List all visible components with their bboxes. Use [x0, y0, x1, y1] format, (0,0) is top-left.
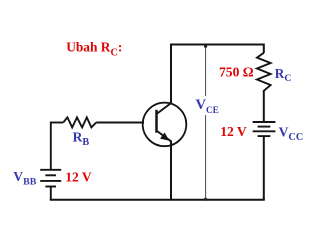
wire top rail [170, 44, 264, 46]
wire left vertical lower [50, 187, 52, 201]
battery VBB [40, 170, 61, 187]
wire VCE measurement line [205, 45, 207, 96]
svg-text:Ubah RC:: Ubah RC: [66, 40, 122, 59]
resistor RB [63, 117, 96, 127]
svg-text:VBB: VBB [13, 169, 36, 187]
wire right vertical bottom [263, 136, 265, 200]
svg-text:RB: RB [73, 130, 90, 149]
wire base horizontal left [51, 122, 63, 124]
node VCE top junction [204, 45, 207, 48]
svg-text:RC: RC [275, 66, 292, 84]
svg-text:750 Ω: 750 Ω [219, 64, 254, 79]
battery VCC [253, 122, 276, 136]
wire bottom rail [50, 199, 265, 201]
svg-text:12 V: 12 V [220, 124, 247, 139]
svg-text:12 V: 12 V [65, 170, 92, 185]
node VCE bottom junction [204, 198, 207, 201]
wire left vertical upper [50, 122, 52, 170]
resistor RC [257, 53, 271, 91]
wire right vertical middle [263, 90, 265, 122]
transistor Q1 [143, 103, 187, 147]
svg-text:VCE: VCE [196, 97, 219, 115]
wire base horizontal right [96, 122, 144, 124]
wire collector vertical [170, 45, 172, 104]
wire emitter vertical [170, 141, 172, 201]
wire right vertical top [263, 44, 265, 54]
svg-text:VCC: VCC [279, 125, 304, 143]
